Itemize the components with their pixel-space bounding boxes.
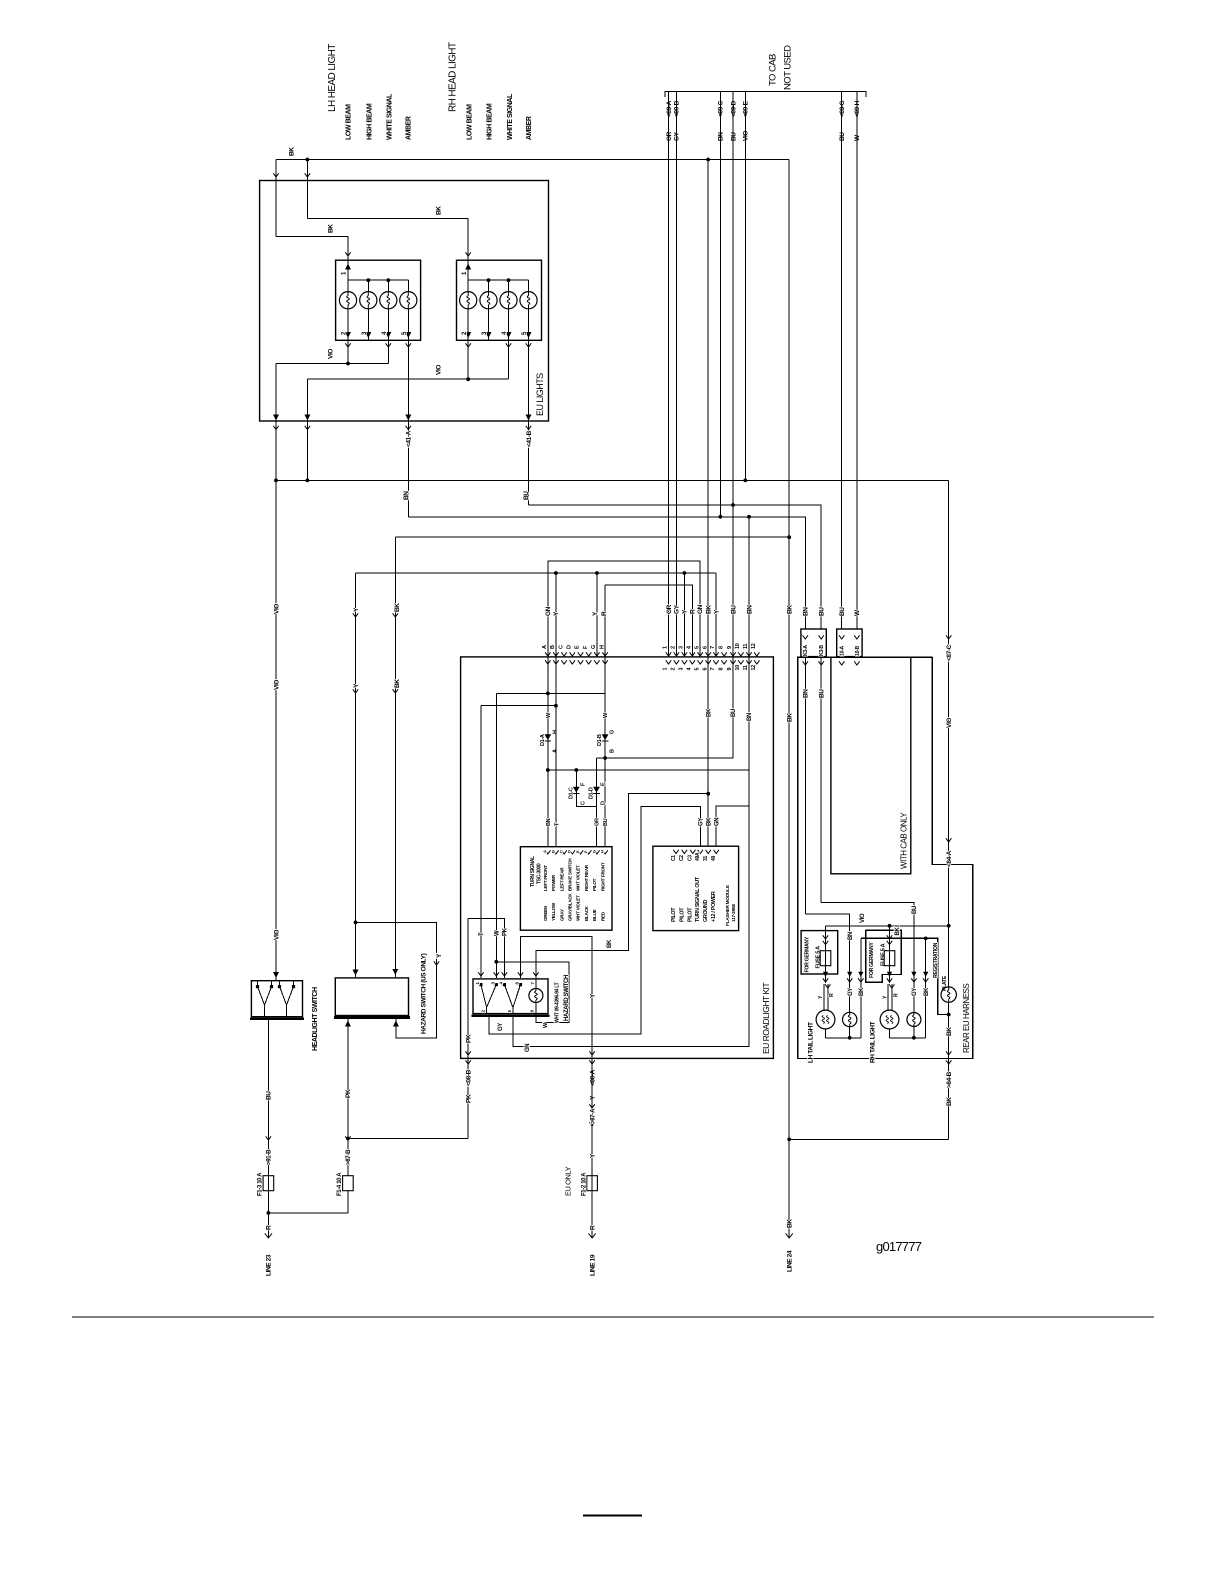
svg-text:117-2988: 117-2988 <box>731 904 737 922</box>
wire R jumper rail <box>604 585 606 657</box>
svg-text:D1-B: D1-B <box>597 734 603 746</box>
svg-text:5: 5 <box>694 646 700 649</box>
svg-text:<84-A: <84-A <box>946 850 953 867</box>
svg-text:BK: BK <box>706 817 712 826</box>
wire Y rail <box>356 572 717 574</box>
svg-text:GY: GY <box>674 604 681 614</box>
wire BU rail (41-B to K3-B) <box>529 505 822 629</box>
svg-text:VIO: VIO <box>273 680 280 690</box>
headlight contact 2 <box>280 987 287 1006</box>
node W bus / A column <box>546 692 550 696</box>
svg-text:G: G <box>591 645 597 649</box>
kit pin 6 <box>706 652 711 656</box>
LH lamp feed bus <box>348 279 408 281</box>
svg-text:<09-A: <09-A <box>666 100 673 117</box>
kit pin 4 <box>690 652 695 656</box>
flasher pin 31 <box>706 850 711 854</box>
wire BK rail right drop <box>788 160 790 538</box>
svg-text:6: 6 <box>702 646 708 649</box>
wire reg lamp to 84-B <box>948 1002 950 1139</box>
svg-text:LINE 23: LINE 23 <box>266 1254 273 1276</box>
svg-text:PILOT: PILOT <box>679 907 685 922</box>
wire BU jog to RH lamp2 <box>821 902 914 1012</box>
svg-text:<41-B: <41-B <box>526 430 533 447</box>
module pin B <box>553 850 558 854</box>
svg-text:GN: GN <box>525 1044 531 1052</box>
diode D1-A <box>544 734 551 740</box>
node F1-3 / F1-4 link <box>267 1211 271 1215</box>
LH lamp 2 lower lead pin 3 <box>367 309 369 341</box>
svg-text:VIO: VIO <box>860 913 866 923</box>
svg-text:R: R <box>601 611 608 616</box>
label 10-B <box>854 635 859 639</box>
flasher pin C1 <box>673 850 678 854</box>
wire BK hazard lamp jog <box>536 794 708 978</box>
wire BN +12 rail <box>548 770 749 806</box>
LH lamp 3 lower lead pin 4 <box>387 309 389 341</box>
RH bus junction a <box>487 278 491 282</box>
svg-text:<09-E: <09-E <box>743 100 750 117</box>
label K3-B <box>819 635 824 639</box>
kit pin B <box>553 652 558 656</box>
kit pin F <box>586 652 591 656</box>
svg-text:AMBER: AMBER <box>526 116 533 140</box>
svg-text:G: G <box>591 850 596 853</box>
RH for-germany fuse box <box>866 930 902 982</box>
svg-text:BU: BU <box>730 605 737 614</box>
svg-text:AMBER: AMBER <box>406 116 413 140</box>
wire VIO mid leg <box>306 379 308 480</box>
flasher pin C3 <box>690 850 695 854</box>
module pin E <box>578 850 583 854</box>
node 09-E / VIO rail junction <box>743 479 747 483</box>
svg-text:EU LIGHTS: EU LIGHTS <box>535 373 545 416</box>
svg-text:BU: BU <box>730 132 737 141</box>
svg-text:BN: BN <box>746 605 753 614</box>
hazard contact 2 <box>504 985 513 1008</box>
svg-text:REAR EU HARNESS: REAR EU HARNESS <box>962 984 971 1053</box>
wire BK left drop <box>394 537 396 978</box>
fuse F1-4 <box>343 1176 354 1191</box>
svg-text:2: 2 <box>671 668 677 671</box>
svg-text:TURN SIGNAL OUT: TURN SIGNAL OUT <box>695 876 701 922</box>
svg-text:3: 3 <box>679 646 685 649</box>
svg-text:K3-B: K3-B <box>819 645 825 656</box>
wire VIO left leg <box>275 364 277 481</box>
svg-text:B: B <box>609 749 615 753</box>
wire 41-B BU drop <box>528 340 530 505</box>
footer center mark <box>583 1514 642 1516</box>
LH bus junction a <box>366 278 370 282</box>
svg-text:<08-A: <08-A <box>589 1069 596 1086</box>
svg-text:R: R <box>893 993 899 997</box>
LH pin 1 lead <box>347 260 349 280</box>
svg-text:PILOT: PILOT <box>592 878 597 891</box>
kit pin 8 <box>721 652 726 656</box>
kit pin 9 <box>730 652 735 656</box>
wire BU below K3-B <box>820 657 822 903</box>
wire 09-A OR to kit pin 1 <box>668 92 670 657</box>
svg-text:BK: BK <box>607 939 613 948</box>
svg-text:10: 10 <box>735 665 741 671</box>
wire RH pin4 drop <box>508 340 510 379</box>
svg-text:BK: BK <box>435 206 442 215</box>
connector 10 box <box>837 629 862 657</box>
svg-text:BK: BK <box>946 1097 953 1106</box>
wire BK main drop <box>788 537 790 1238</box>
svg-text:A: A <box>542 645 548 649</box>
diode D1-D <box>593 787 600 793</box>
svg-text:BN: BN <box>848 932 854 940</box>
EU LIGHTS enclosure <box>260 181 549 422</box>
svg-text:EU ROADLIGHT KIT: EU ROADLIGHT KIT <box>761 983 771 1054</box>
svg-text:GN: GN <box>545 606 552 616</box>
wire VIO rail <box>276 479 949 481</box>
LH tail dual lamp <box>816 1010 835 1029</box>
kit pin G <box>594 652 599 656</box>
hazard switch (US) base <box>334 1016 410 1019</box>
svg-text:R: R <box>690 609 697 614</box>
svg-text:10-A: 10-A <box>840 645 846 656</box>
svg-text:PK: PK <box>466 1094 473 1103</box>
svg-text:10: 10 <box>735 643 741 649</box>
svg-text:NOT USED: NOT USED <box>782 45 793 90</box>
svg-text:BU: BU <box>912 906 918 914</box>
LH lamp 1 lower lead pin 2 <box>347 309 349 341</box>
RH lamp 1 lower lead pin 2 <box>467 309 469 341</box>
svg-text:BN: BN <box>718 132 725 141</box>
wire LH dual lamp return <box>825 1029 827 1038</box>
wire BK inside pin6 to flasher 31 <box>707 657 709 846</box>
wire LH BK riser <box>860 938 862 1037</box>
svg-text:9: 9 <box>727 646 733 649</box>
kit pin 5 <box>698 652 703 656</box>
svg-text:8: 8 <box>718 668 724 671</box>
wire 84-B to BK main <box>789 1138 949 1140</box>
node BN rail / pin11 riser <box>747 515 751 519</box>
svg-text:WITH CAB ONLY: WITH CAB ONLY <box>899 812 908 869</box>
svg-text:GREEN: GREEN <box>543 905 548 921</box>
wire LH pin4 drop <box>387 340 389 363</box>
LH lamp 4 lower lead pin 5 <box>407 309 409 341</box>
chevron BK left 1 <box>393 613 398 617</box>
svg-text:D: D <box>566 645 572 649</box>
wire GN flasher feed <box>716 806 749 846</box>
wire Y kit pin B riser <box>555 573 557 657</box>
svg-text:11: 11 <box>743 665 749 670</box>
svg-text:GRAY: GRAY <box>559 909 564 921</box>
wire Y kit pin G riser <box>596 573 598 657</box>
footer rule <box>72 1316 1154 1318</box>
svg-text:7: 7 <box>710 668 716 671</box>
svg-text:HAZARD SWITCH: HAZARD SWITCH <box>564 975 570 1021</box>
svg-text:12: 12 <box>751 643 757 649</box>
node BK rail / kit pin 6 riser <box>706 158 710 162</box>
svg-text:RH HEAD LIGHT: RH HEAD LIGHT <box>448 42 459 112</box>
wire 41-A BN drop <box>407 340 409 517</box>
svg-text:6: 6 <box>702 668 708 671</box>
RH lamp 1 <box>467 280 469 291</box>
EU ROADLIGHT KIT enclosure <box>461 657 774 1059</box>
wire Y kit pin 3 riser <box>683 573 685 657</box>
diode D1-B <box>602 734 609 740</box>
LH lamp 4 <box>407 280 409 291</box>
module pin A <box>545 850 550 854</box>
svg-text:VIO: VIO <box>743 131 750 141</box>
kit pin 1 <box>666 652 671 656</box>
label K3-A <box>803 635 808 639</box>
svg-text:C: C <box>559 850 564 853</box>
node BN rail inside / A column <box>546 768 550 772</box>
wire W hazard lamp return <box>496 962 569 1023</box>
node BK rail / BK main <box>787 535 791 539</box>
svg-text:9: 9 <box>727 668 733 671</box>
wire BN inside pin11 <box>748 657 750 770</box>
svg-text:G: G <box>609 730 615 734</box>
svg-text:EU ONLY: EU ONLY <box>564 1166 573 1196</box>
kit pin 12 <box>754 652 759 656</box>
svg-text:2: 2 <box>671 646 677 649</box>
svg-text:LOW BEAM: LOW BEAM <box>467 104 474 140</box>
wire RH pin2 drop <box>467 340 469 379</box>
svg-text:GY: GY <box>912 988 918 996</box>
svg-text:PK: PK <box>503 927 509 936</box>
svg-text:C: C <box>558 645 564 649</box>
svg-text:VIO: VIO <box>946 718 953 728</box>
wire 09-E VIO <box>744 92 746 481</box>
wire F1-4 link <box>347 1191 349 1213</box>
wire Y to F1-2 <box>591 1058 593 1238</box>
wire Y into hazard switch <box>355 922 357 978</box>
LH ground bus <box>826 1037 861 1039</box>
svg-text:TO CAB: TO CAB <box>767 54 778 86</box>
RH pin 1 lead <box>467 260 469 280</box>
svg-text:W: W <box>494 930 500 936</box>
svg-text:LEFT FRONT: LEFT FRONT <box>543 865 548 891</box>
svg-text:VIO: VIO <box>273 604 280 614</box>
headlight contact 1 <box>258 987 265 1006</box>
svg-text:GY: GY <box>848 988 854 996</box>
node BK main / rear ground <box>787 1138 791 1142</box>
svg-text:WHT VIOLET: WHT VIOLET <box>576 895 581 921</box>
svg-text:31: 31 <box>703 856 709 861</box>
svg-text:GY: GY <box>698 818 704 826</box>
svg-text:BK: BK <box>787 713 794 722</box>
svg-text:BK: BK <box>327 224 334 233</box>
svg-text:BU: BU <box>523 491 530 500</box>
hazard switch block <box>473 979 548 1014</box>
svg-text:PK: PK <box>466 1034 473 1043</box>
kit pin 3 <box>682 652 687 656</box>
RH lamp 2 lower lead pin 3 <box>488 309 490 341</box>
kit pin D <box>570 652 575 656</box>
svg-text:LH HEAD LIGHT: LH HEAD LIGHT <box>327 44 338 112</box>
kit pin E <box>578 652 583 656</box>
wire BU to fuse F1-3 <box>267 1019 269 1238</box>
hazard pilot lamp <box>529 989 543 1003</box>
svg-text:WHITE SIGNAL: WHITE SIGNAL <box>507 93 514 140</box>
wire VIO LH bus <box>276 363 388 365</box>
svg-text:BN: BN <box>403 491 410 500</box>
flasher pin C2 <box>682 850 687 854</box>
svg-text:FOR GERMANY: FOR GERMANY <box>804 936 810 972</box>
svg-text:LINE 24: LINE 24 <box>787 1250 794 1272</box>
node Y rail / pin 3 <box>683 571 687 575</box>
wire GY flasher 49A <box>489 807 700 1034</box>
node VIO bus / RH fuse <box>888 924 892 928</box>
flasher pin 49 <box>714 850 719 854</box>
svg-text:+12 / POWER: +12 / POWER <box>711 891 717 922</box>
wire D1-C column <box>576 770 596 806</box>
kit pin 11 <box>746 652 751 656</box>
svg-text:PILOT: PILOT <box>671 907 677 922</box>
svg-text:GN: GN <box>714 818 720 826</box>
svg-text:WHITE SIGNAL: WHITE SIGNAL <box>387 93 394 140</box>
turn signal module TSC-3000 box <box>520 847 612 931</box>
wire BK into EU lights RH <box>306 160 308 219</box>
node T jog / B column <box>554 704 558 708</box>
RH tail lamp 2 <box>907 1013 921 1027</box>
svg-text:REGISTRATION: REGISTRATION <box>933 942 939 978</box>
wire BN jog to LH lamp2 <box>805 914 849 1012</box>
module pin H <box>602 850 607 854</box>
svg-text:C2: C2 <box>679 855 685 861</box>
svg-text:49: 49 <box>711 856 717 861</box>
svg-text:BU: BU <box>603 818 609 826</box>
svg-text:RIGHT REAR: RIGHT REAR <box>584 864 589 891</box>
hazard switch (US) body <box>335 978 408 1016</box>
wire R jumper <box>605 585 692 657</box>
RH tail dual lamp <box>880 1010 899 1029</box>
fuse F1-3 <box>263 1176 274 1191</box>
kit pin H <box>602 652 607 656</box>
wire BN drop to hazard 5 <box>513 806 749 1047</box>
svg-text:GRAY/BLACK: GRAY/BLACK <box>567 893 572 921</box>
wire BU pin9 jog <box>597 657 734 758</box>
svg-text:RED: RED <box>600 911 605 921</box>
svg-text:BN: BN <box>747 713 753 721</box>
chevron Y left 2 <box>353 689 358 693</box>
LH bus junction b <box>386 278 390 282</box>
RH lamp 3 lower lead pin 4 <box>508 309 510 341</box>
wire kit pin H to module H <box>604 657 606 847</box>
svg-text:C1: C1 <box>671 855 677 861</box>
wire Y rail left drop <box>355 573 357 922</box>
svg-text:>87-A: >87-A <box>589 1108 596 1124</box>
svg-text:<09-B: <09-B <box>674 100 681 117</box>
svg-text:BU: BU <box>839 607 846 616</box>
wire BK rail <box>395 536 789 538</box>
wire W bus <box>496 692 605 694</box>
svg-text:<09-H: <09-H <box>854 100 861 117</box>
svg-text:TSC-3000: TSC-3000 <box>536 863 542 884</box>
wire PK jog <box>468 918 504 978</box>
svg-text:BN: BN <box>546 818 552 826</box>
svg-text:RIGHT FRONT: RIGHT FRONT <box>600 862 605 891</box>
node W column / lamp return <box>494 960 498 964</box>
svg-text:RH TAIL LIGHT: RH TAIL LIGHT <box>869 1021 876 1063</box>
wire BK jog to LH connector <box>276 237 348 261</box>
label 10-A <box>839 635 844 639</box>
REAR EU HARNESS enclosure <box>798 657 973 1058</box>
svg-text:BLACK: BLACK <box>584 905 589 921</box>
module pin C <box>561 850 566 854</box>
svg-text:R: R <box>829 993 835 997</box>
connector 09 bracket <box>665 92 866 98</box>
svg-text:VIO: VIO <box>273 930 280 940</box>
RH lamp 3 <box>508 280 510 291</box>
flasher pin 49A <box>698 850 703 854</box>
fuse RH tail <box>889 926 891 983</box>
svg-text:10-B: 10-B <box>855 645 861 656</box>
node reg lamp return / BK jog <box>947 1013 951 1017</box>
svg-text:HIGH BEAM: HIGH BEAM <box>487 103 494 140</box>
svg-text:POWER: POWER <box>551 874 556 891</box>
svg-text:<09-G: <09-G <box>839 100 846 117</box>
svg-text:GY: GY <box>498 1023 504 1031</box>
module pin G <box>594 850 599 854</box>
svg-text:YELLOW: YELLOW <box>551 902 556 921</box>
wire VIO left drop <box>275 480 277 980</box>
wire kit pin B to module B (T) <box>555 657 557 847</box>
wire PK riser 08-B <box>467 918 469 1138</box>
diode D1-C <box>573 787 580 793</box>
chevrons hazard top pins <box>478 972 483 976</box>
wire RH lamp2 return <box>913 1027 915 1038</box>
svg-text:BRAKE SWITCH: BRAKE SWITCH <box>567 858 572 891</box>
svg-text:FLASHER MODULE: FLASHER MODULE <box>725 884 731 926</box>
svg-text:F1-2 10 A: F1-2 10 A <box>582 1172 588 1196</box>
wire BN rail (41-A to K3-A) <box>408 517 805 629</box>
svg-text:TURN SIGNAL: TURN SIGNAL <box>530 856 536 887</box>
wire BN below K3-A <box>804 657 806 914</box>
svg-text:BK: BK <box>288 147 295 156</box>
wire PK link to 08-B <box>348 1138 468 1140</box>
node LH pin2 / VIO bus <box>346 362 350 366</box>
svg-text:<09-D: <09-D <box>730 100 737 117</box>
svg-text:OR: OR <box>666 131 673 141</box>
LH for-germany fuse box <box>801 931 838 974</box>
wire RH dual lamp feeds <box>887 984 889 1011</box>
svg-text:BK: BK <box>895 927 901 936</box>
wire 09-C BN <box>719 92 721 517</box>
RH bus junction b <box>507 278 511 282</box>
svg-text:A: A <box>542 850 547 853</box>
RH lamp 4 lower lead pin 5 <box>528 309 530 341</box>
wire Y riser 08-A <box>521 936 593 1058</box>
chevron BK left 2 <box>393 689 398 693</box>
svg-text:BLUE: BLUE <box>592 909 597 921</box>
wire 09-B GY to kit pin 2 <box>675 92 677 657</box>
svg-text:F1-4 10 A: F1-4 10 A <box>337 1172 343 1196</box>
svg-text:<41-A: <41-A <box>406 430 413 447</box>
svg-text:>91-B: >91-B <box>266 1149 273 1165</box>
node BK rail / RH drop <box>306 158 310 162</box>
svg-text:BU: BU <box>819 689 826 698</box>
svg-text:7: 7 <box>710 646 716 649</box>
RH head light connector box <box>457 260 542 340</box>
svg-text:5: 5 <box>694 668 700 671</box>
svg-text:BK: BK <box>946 1027 953 1036</box>
svg-text:K3-A: K3-A <box>803 645 809 656</box>
stub 10-A <box>839 661 844 665</box>
kit pin 10 <box>738 652 743 656</box>
svg-text:<87-C: <87-C <box>946 644 953 661</box>
svg-text:11: 11 <box>743 644 749 649</box>
wire VIO 87-C drop <box>948 480 950 987</box>
svg-text:PILOT: PILOT <box>688 907 694 922</box>
svg-text:BK: BK <box>787 1219 794 1228</box>
